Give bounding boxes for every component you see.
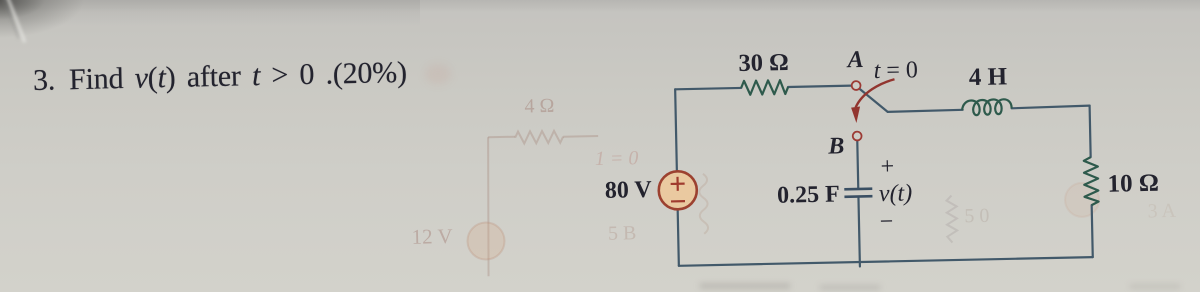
svg-text:A: A	[845, 47, 864, 73]
wire capacitor to bottom	[858, 198, 859, 266]
ghost resistor 4ohm	[515, 131, 563, 144]
wire top-right segment to switch node A	[788, 86, 852, 87]
source plus sign	[670, 177, 684, 191]
ghost wire vertical	[486, 137, 491, 276]
wire left vertical upper	[675, 89, 677, 171]
svg-text:80 V: 80 V	[605, 177, 653, 204]
switch blade	[859, 88, 887, 113]
voltage source 80V circle	[658, 171, 697, 210]
resistor 10 ohm zigzag	[1084, 157, 1099, 205]
dark photo corner top-left	[0, 0, 130, 60]
wire top-left segment	[675, 88, 741, 89]
svg-text:B: B	[827, 133, 845, 159]
svg-text:30 Ω: 30 Ω	[738, 49, 789, 77]
resistor 30 ohm zigzag	[741, 80, 788, 95]
switch action arrow arc	[855, 79, 895, 107]
svg-text:−: −	[879, 209, 893, 235]
faint bleed smudges along bottom edge	[700, 283, 790, 289]
wire node B down to capacitor	[856, 141, 859, 188]
wire inductor to corner	[1012, 106, 1090, 109]
svg-text:4 Ω: 4 Ω	[524, 95, 554, 118]
svg-text:3 A: 3 A	[1147, 200, 1176, 223]
ghost wire horizontal right	[563, 135, 598, 138]
switch node B circle	[853, 132, 862, 141]
switch node A circle	[852, 81, 861, 90]
ghost bleed-through circuit on left	[486, 122, 958, 276]
capacitor 0.25F bottom plate	[844, 195, 872, 198]
ghost source circle right	[1065, 182, 1100, 217]
svg-text:4 H: 4 H	[969, 63, 1008, 91]
wire switch to inductor	[888, 110, 963, 112]
top edge shading band	[0, 0, 1200, 12]
ghost vertical squiggle near source	[699, 174, 708, 234]
capacitor 0.25F top plate	[844, 187, 872, 190]
svg-text:5 0: 5 0	[964, 205, 989, 228]
inductor 4H coil	[962, 99, 1012, 115]
wire right vertical lower	[1092, 205, 1093, 257]
svg-text:v(t): v(t)	[879, 180, 913, 207]
svg-text:12 V: 12 V	[411, 224, 453, 249]
ghost source circle 12V	[467, 222, 505, 260]
wire bottom	[679, 257, 1093, 266]
svg-text:1 = 0: 1 = 0	[595, 147, 639, 170]
source minus sign	[671, 200, 685, 202]
wire right vertical upper	[1090, 106, 1091, 157]
svg-text:t = 0: t = 0	[873, 57, 918, 84]
problem heading text	[33, 55, 464, 98]
faint pink smudge after heading	[425, 64, 451, 84]
ghost vertical zigzag mid right	[946, 195, 957, 242]
ghost wire horizontal left	[488, 136, 515, 139]
svg-text:5 Β: 5 Β	[608, 222, 637, 245]
wire left vertical lower	[678, 209, 679, 265]
paper crease highlight	[5, 0, 26, 43]
svg-text:+: +	[880, 154, 894, 180]
svg-text:0.25 F: 0.25 F	[777, 181, 840, 208]
svg-text:10 Ω: 10 Ω	[1107, 170, 1159, 198]
switch arrow head	[851, 106, 860, 123]
